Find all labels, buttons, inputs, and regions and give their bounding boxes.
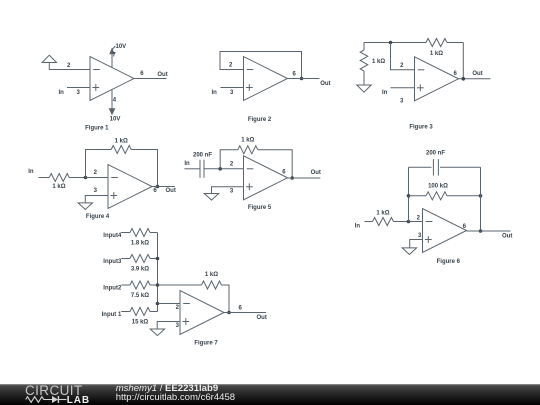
svg-text:3: 3 [230, 90, 234, 96]
svg-text:1 kΩ: 1 kΩ [241, 138, 254, 144]
svg-text:7.5 kΩ: 7.5 kΩ [131, 293, 149, 299]
svg-text:2: 2 [67, 63, 71, 69]
svg-text:Out: Out [502, 234, 512, 240]
svg-text:1 kΩ: 1 kΩ [372, 59, 385, 65]
svg-text:Figure 3: Figure 3 [409, 124, 433, 130]
svg-text:Figure 7: Figure 7 [194, 341, 218, 347]
svg-text:6: 6 [282, 170, 286, 176]
svg-text:Input2: Input2 [103, 286, 122, 292]
svg-text:Out: Out [257, 315, 267, 321]
svg-text:In: In [355, 224, 361, 230]
svg-text:1 kΩ: 1 kΩ [52, 184, 65, 190]
svg-text:1 kΩ: 1 kΩ [376, 211, 389, 217]
svg-text:Out: Out [320, 81, 330, 87]
svg-text:7: 7 [112, 53, 116, 59]
svg-text:6: 6 [239, 306, 243, 312]
svg-text:Out: Out [472, 71, 482, 77]
svg-text:1 kΩ: 1 kΩ [205, 272, 218, 278]
svg-text:10V: 10V [116, 44, 127, 50]
svg-text:200 nF: 200 nF [426, 151, 445, 157]
svg-text:Figure 6: Figure 6 [437, 259, 461, 265]
svg-text:Input3: Input3 [103, 259, 122, 265]
svg-text:Figure 5: Figure 5 [248, 205, 272, 211]
svg-text:Input4: Input4 [103, 233, 122, 239]
svg-text:6: 6 [140, 71, 144, 77]
svg-text:2: 2 [176, 305, 180, 311]
svg-text:2: 2 [417, 215, 421, 221]
svg-text:Figure 1: Figure 1 [85, 125, 109, 131]
svg-text:6: 6 [453, 71, 457, 77]
svg-text:1 kΩ: 1 kΩ [115, 138, 128, 144]
svg-text:3: 3 [77, 90, 81, 96]
svg-text:200 nF: 200 nF [193, 152, 212, 158]
svg-text:3: 3 [230, 189, 234, 195]
svg-text:3: 3 [418, 233, 422, 239]
svg-text:Input 1: Input 1 [102, 312, 122, 318]
svg-text:Out: Out [166, 188, 176, 194]
svg-text:Figure 2: Figure 2 [248, 117, 272, 123]
svg-text:6: 6 [293, 72, 297, 78]
svg-text:10V: 10V [110, 117, 121, 123]
svg-text:2: 2 [230, 162, 234, 168]
svg-text:3.9 kΩ: 3.9 kΩ [131, 267, 149, 273]
svg-text:Figure 4: Figure 4 [86, 214, 110, 220]
svg-text:2: 2 [94, 170, 98, 176]
svg-text:2: 2 [229, 63, 233, 69]
svg-text:3: 3 [94, 188, 98, 194]
svg-text:In: In [59, 90, 65, 96]
svg-text:15 kΩ: 15 kΩ [132, 320, 149, 326]
svg-text:4: 4 [113, 98, 117, 104]
svg-text:6: 6 [463, 224, 467, 230]
svg-text:In: In [212, 90, 218, 96]
svg-text:Out: Out [157, 72, 167, 78]
svg-text:In: In [382, 90, 388, 96]
svg-text:1 kΩ: 1 kΩ [430, 51, 443, 57]
svg-text:In: In [28, 169, 34, 175]
svg-text:In: In [184, 161, 190, 167]
svg-text:2: 2 [400, 63, 404, 69]
svg-text:100 kΩ: 100 kΩ [428, 184, 448, 190]
svg-text:Out: Out [311, 170, 321, 176]
svg-text:3: 3 [176, 323, 180, 329]
svg-text:6: 6 [153, 188, 157, 194]
svg-text:3: 3 [400, 99, 404, 105]
svg-text:1.8 kΩ: 1.8 kΩ [131, 241, 149, 247]
